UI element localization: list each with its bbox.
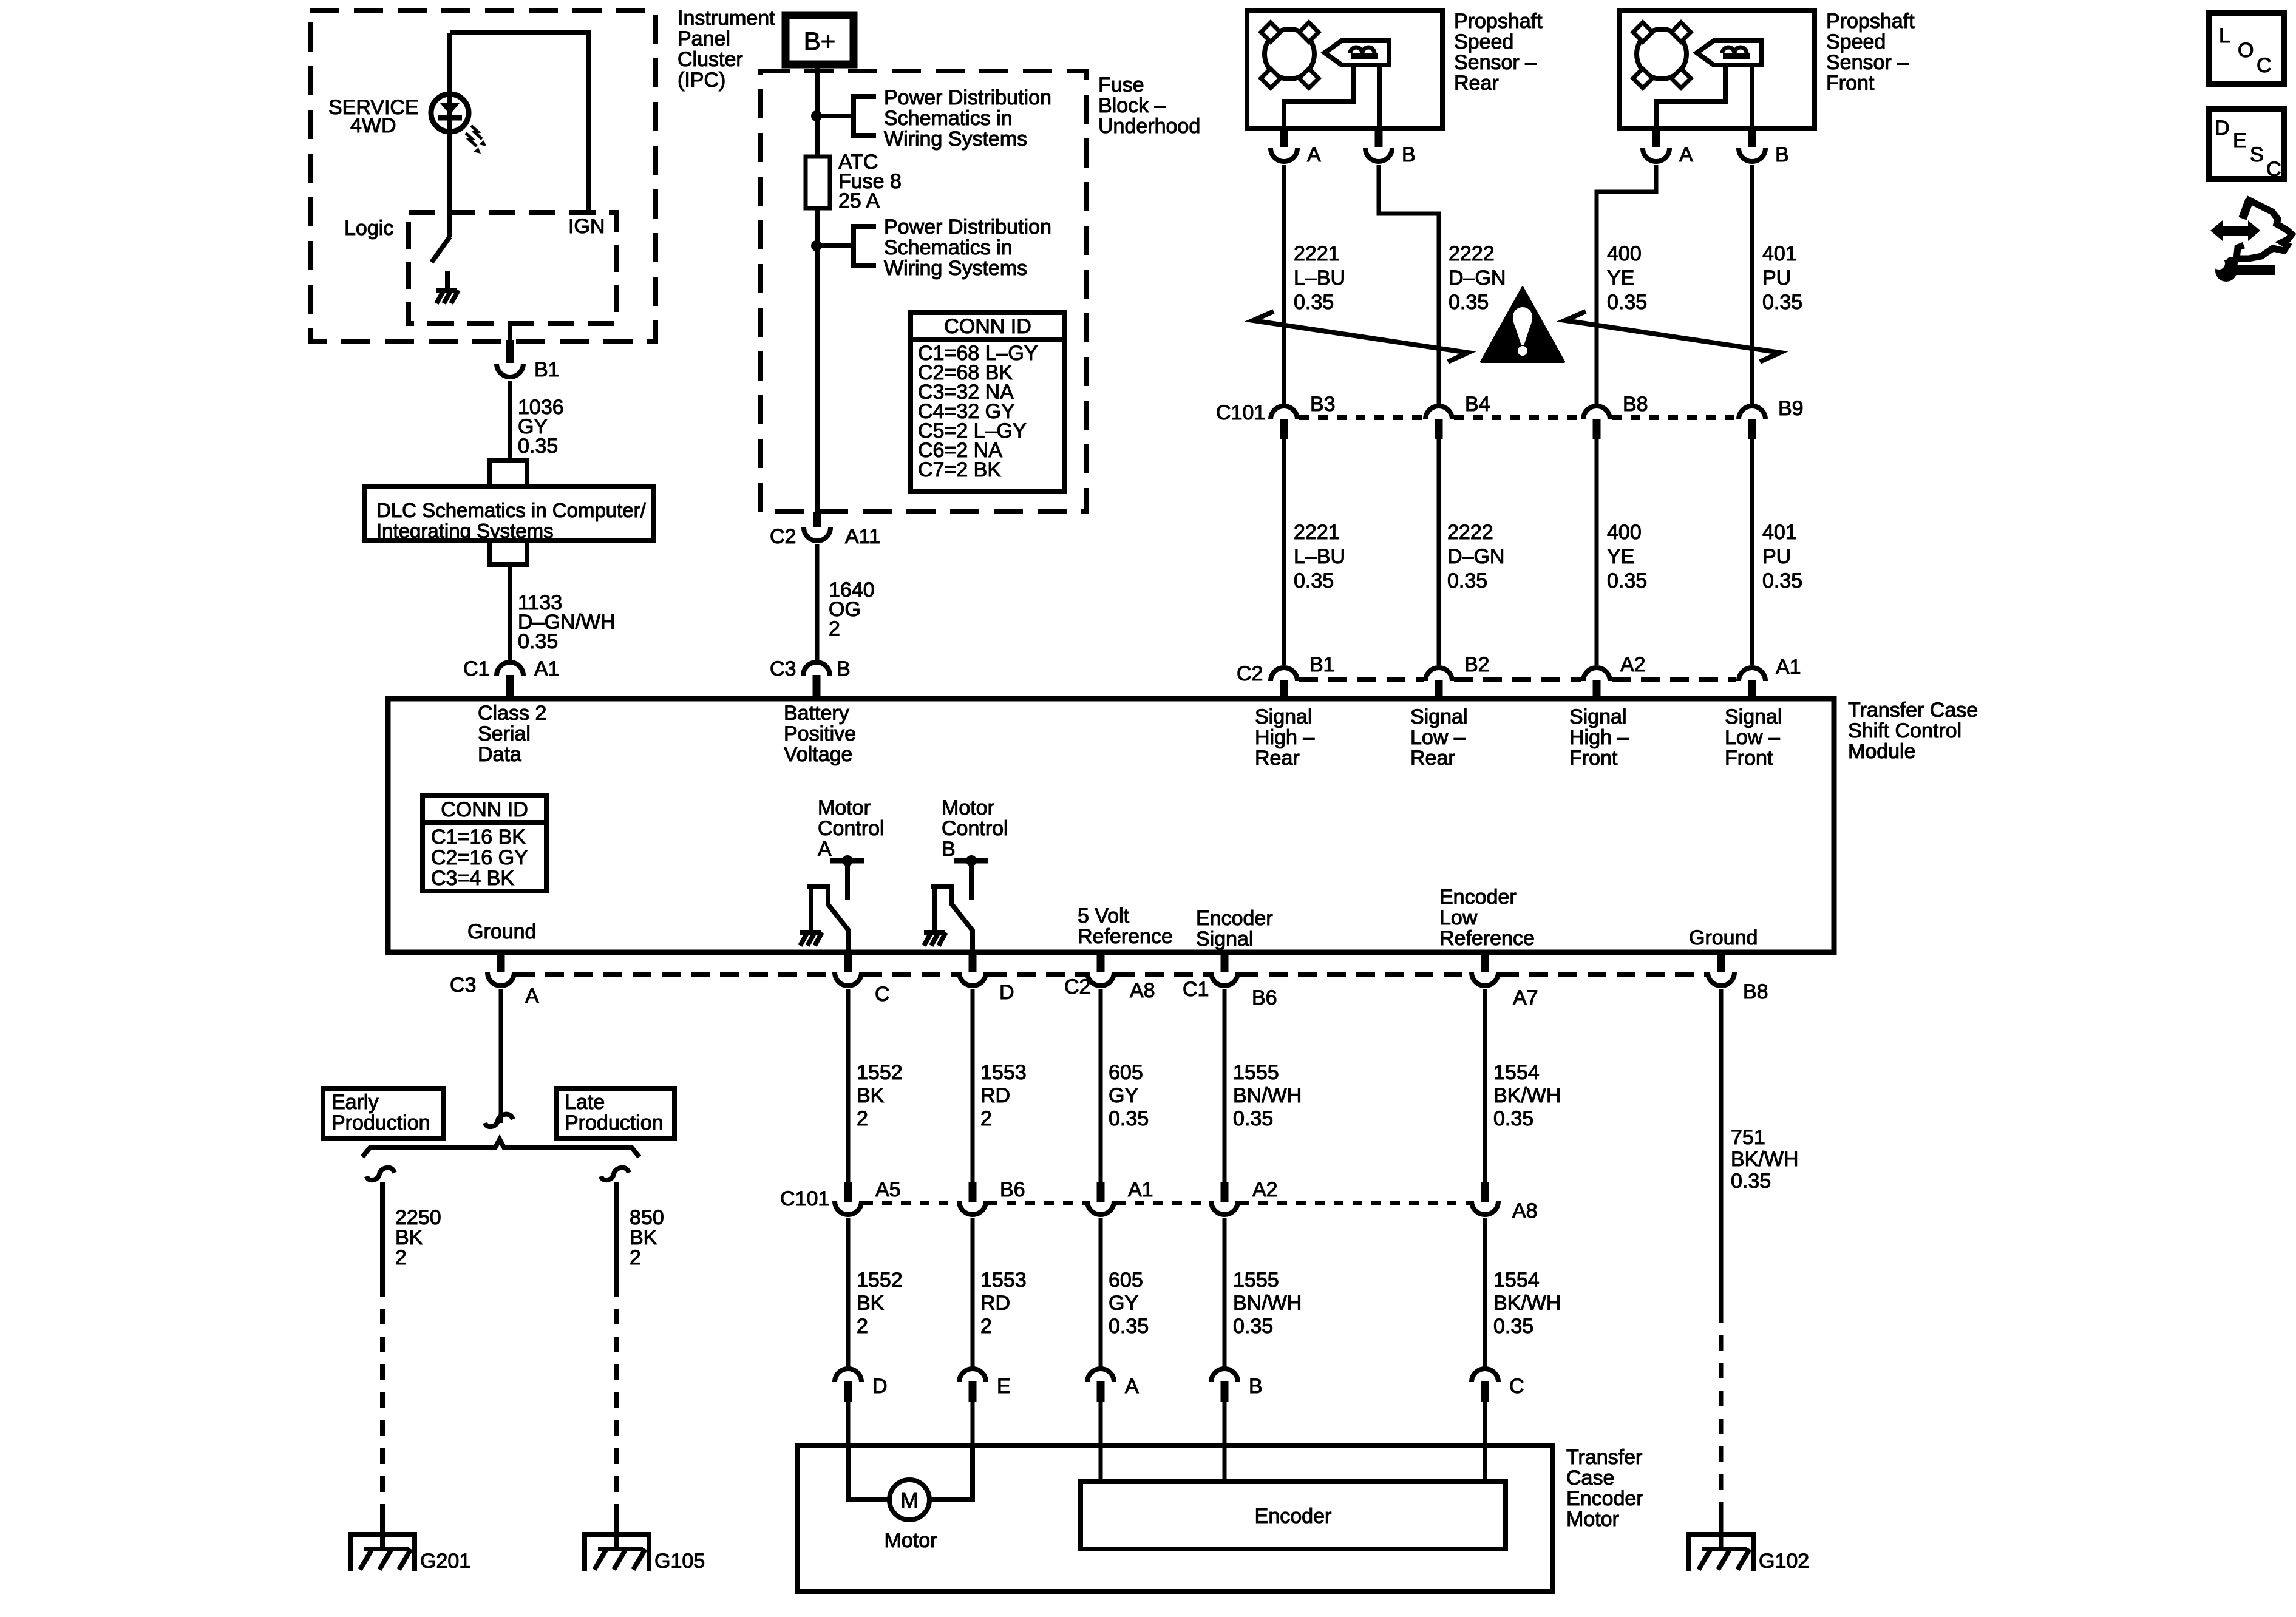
svg-text:C101: C101 <box>1216 401 1265 424</box>
svg-text:2: 2 <box>857 1107 868 1130</box>
svg-text:C101: C101 <box>780 1187 829 1210</box>
svg-text:C2: C2 <box>1237 662 1263 685</box>
svg-text:605: 605 <box>1109 1061 1143 1084</box>
svg-text:G201: G201 <box>420 1550 470 1573</box>
svg-text:Data: Data <box>478 743 521 766</box>
svg-text:Speed: Speed <box>1454 30 1513 53</box>
svg-text:Logic: Logic <box>344 217 393 240</box>
svg-text:B: B <box>1402 143 1416 166</box>
svg-text:BN/WH: BN/WH <box>1233 1084 1302 1107</box>
svg-text:Schematics in: Schematics in <box>884 107 1013 130</box>
svg-text:25 A: 25 A <box>838 189 880 212</box>
svg-text:YE: YE <box>1607 545 1634 568</box>
svg-text:1555: 1555 <box>1233 1061 1279 1084</box>
svg-text:400: 400 <box>1607 521 1642 544</box>
svg-text:0.35: 0.35 <box>518 630 558 653</box>
svg-text:Encoder: Encoder <box>1439 886 1517 909</box>
svg-text:Motor: Motor <box>1566 1508 1619 1531</box>
svg-text:D: D <box>872 1375 888 1398</box>
svg-text:B1: B1 <box>1309 653 1335 676</box>
svg-text:0.35: 0.35 <box>1233 1107 1273 1130</box>
svg-text:A2: A2 <box>1620 653 1646 676</box>
svg-text:C2=16 GY: C2=16 GY <box>431 846 528 869</box>
svg-text:(IPC): (IPC) <box>678 69 725 92</box>
svg-text:400: 400 <box>1607 242 1642 265</box>
svg-text:E: E <box>997 1375 1011 1398</box>
svg-text:Ground: Ground <box>467 920 536 943</box>
svg-text:GY: GY <box>1109 1292 1138 1315</box>
svg-text:BK/WH: BK/WH <box>1493 1084 1561 1107</box>
svg-text:Production: Production <box>331 1111 430 1134</box>
svg-text:A8: A8 <box>1512 1199 1538 1222</box>
svg-text:L: L <box>2219 24 2230 47</box>
svg-text:G105: G105 <box>654 1550 705 1573</box>
svg-text:Late: Late <box>565 1091 605 1114</box>
svg-text:0.35: 0.35 <box>1762 569 1802 592</box>
svg-text:B8: B8 <box>1623 393 1648 416</box>
svg-text:L–BU: L–BU <box>1294 266 1345 290</box>
svg-text:Cluster: Cluster <box>678 48 743 71</box>
svg-text:Serial: Serial <box>478 722 531 745</box>
svg-text:Low –: Low – <box>1725 726 1780 749</box>
svg-text:BK: BK <box>857 1292 885 1315</box>
svg-text:1554: 1554 <box>1493 1061 1540 1084</box>
svg-text:A: A <box>1679 143 1693 166</box>
svg-text:B: B <box>942 838 956 861</box>
svg-text:0.35: 0.35 <box>1493 1315 1533 1338</box>
svg-text:L–BU: L–BU <box>1294 545 1345 568</box>
svg-text:C3: C3 <box>450 974 476 997</box>
svg-text:0.35: 0.35 <box>1762 291 1802 314</box>
svg-text:GY: GY <box>1109 1084 1138 1107</box>
svg-text:Rear: Rear <box>1410 747 1455 770</box>
svg-text:1552: 1552 <box>857 1061 903 1084</box>
svg-text:BK: BK <box>857 1084 885 1107</box>
svg-text:0.35: 0.35 <box>1447 569 1487 592</box>
svg-text:Transfer: Transfer <box>1566 1446 1642 1469</box>
svg-text:A: A <box>1125 1375 1139 1398</box>
svg-text:Front: Front <box>1826 72 1875 95</box>
svg-text:D–GN: D–GN <box>1449 266 1506 290</box>
svg-text:Underhood: Underhood <box>1098 115 1200 138</box>
svg-text:Encoder: Encoder <box>1566 1487 1643 1510</box>
svg-text:0.35: 0.35 <box>1493 1107 1533 1130</box>
svg-text:Signal: Signal <box>1196 927 1254 951</box>
svg-text:Reference: Reference <box>1078 925 1173 948</box>
svg-text:Front: Front <box>1569 747 1618 770</box>
svg-text:A8: A8 <box>1130 979 1155 1002</box>
svg-text:Fuse: Fuse <box>1098 73 1144 97</box>
svg-text:Schematics in: Schematics in <box>884 236 1013 259</box>
svg-text:D–GN: D–GN <box>1447 545 1504 568</box>
svg-text:Positive: Positive <box>784 722 856 745</box>
svg-text:2: 2 <box>980 1107 992 1130</box>
svg-text:Shift Control: Shift Control <box>1848 719 1961 742</box>
svg-text:BN/WH: BN/WH <box>1233 1292 1302 1315</box>
svg-text:A1: A1 <box>1128 1178 1153 1201</box>
svg-text:PU: PU <box>1762 266 1791 290</box>
svg-text:Control: Control <box>942 817 1008 840</box>
svg-text:605: 605 <box>1109 1269 1143 1292</box>
svg-text:BK/WH: BK/WH <box>1493 1292 1561 1315</box>
svg-text:CONN ID: CONN ID <box>441 798 528 821</box>
svg-text:B3: B3 <box>1310 393 1336 416</box>
svg-text:RD: RD <box>980 1292 1010 1315</box>
svg-text:2: 2 <box>630 1246 641 1269</box>
svg-text:IGN: IGN <box>568 215 605 238</box>
svg-text:Signal: Signal <box>1725 705 1782 728</box>
svg-text:401: 401 <box>1762 242 1797 265</box>
svg-text:M: M <box>900 1488 919 1513</box>
svg-text:Power Distribution: Power Distribution <box>884 215 1051 239</box>
svg-text:A: A <box>525 985 539 1008</box>
svg-text:PU: PU <box>1762 545 1791 568</box>
svg-text:0.35: 0.35 <box>1607 291 1647 314</box>
svg-text:Integrating Systems: Integrating Systems <box>376 520 554 542</box>
svg-text:Encoder: Encoder <box>1196 907 1273 930</box>
svg-text:B: B <box>1249 1375 1263 1398</box>
svg-text:E: E <box>2233 129 2247 152</box>
svg-text:401: 401 <box>1762 521 1797 544</box>
svg-text:DLC Schematics in Computer/: DLC Schematics in Computer/ <box>376 499 647 521</box>
svg-text:0.35: 0.35 <box>1731 1170 1771 1193</box>
svg-text:1554: 1554 <box>1493 1269 1540 1292</box>
svg-text:A7: A7 <box>1513 986 1538 1009</box>
svg-text:2: 2 <box>395 1246 407 1269</box>
svg-text:YE: YE <box>1607 266 1634 290</box>
svg-text:2221: 2221 <box>1294 521 1340 544</box>
svg-text:Case: Case <box>1566 1466 1614 1490</box>
svg-text:O: O <box>2238 39 2254 62</box>
svg-text:Rear: Rear <box>1454 72 1499 95</box>
svg-text:2: 2 <box>829 617 840 640</box>
svg-text:0.35: 0.35 <box>1109 1315 1149 1338</box>
svg-text:A: A <box>818 838 832 861</box>
svg-text:Instrument: Instrument <box>678 7 775 30</box>
svg-text:2: 2 <box>857 1315 868 1338</box>
svg-text:C1: C1 <box>463 657 489 680</box>
svg-text:C1: C1 <box>1183 978 1209 1001</box>
svg-text:A: A <box>1307 143 1321 166</box>
svg-text:B8: B8 <box>1743 980 1768 1003</box>
svg-text:Transfer Case: Transfer Case <box>1848 699 1978 722</box>
svg-text:C7=2 BK: C7=2 BK <box>918 458 1001 481</box>
svg-text:Wiring Systems: Wiring Systems <box>884 127 1027 151</box>
svg-text:C2: C2 <box>770 525 796 548</box>
svg-text:B2: B2 <box>1464 653 1490 676</box>
svg-text:1553: 1553 <box>980 1269 1027 1292</box>
svg-text:1552: 1552 <box>857 1269 903 1292</box>
svg-text:Motor: Motor <box>885 1529 937 1552</box>
svg-text:Signal: Signal <box>1569 705 1627 728</box>
svg-text:C: C <box>2257 54 2272 77</box>
svg-text:2221: 2221 <box>1294 242 1340 265</box>
svg-text:Front: Front <box>1725 747 1773 770</box>
svg-text:B1: B1 <box>534 358 560 381</box>
svg-text:0.35: 0.35 <box>1607 569 1647 592</box>
svg-text:BK/WH: BK/WH <box>1731 1148 1798 1171</box>
svg-text:0.35: 0.35 <box>1233 1315 1273 1338</box>
svg-text:Control: Control <box>818 817 885 840</box>
svg-text:Ground: Ground <box>1689 926 1758 949</box>
svg-text:Speed: Speed <box>1826 30 1886 53</box>
svg-text:High –: High – <box>1569 726 1629 749</box>
svg-text:Propshaft: Propshaft <box>1454 10 1543 33</box>
svg-text:B: B <box>837 657 851 680</box>
svg-text:Signal: Signal <box>1410 705 1468 728</box>
svg-text:0.35: 0.35 <box>1449 291 1489 314</box>
svg-text:RD: RD <box>980 1084 1010 1107</box>
svg-text:Encoder: Encoder <box>1255 1505 1332 1528</box>
svg-text:A5: A5 <box>875 1178 901 1201</box>
svg-text:B4: B4 <box>1465 393 1490 416</box>
svg-text:Sensor –: Sensor – <box>1826 51 1909 74</box>
svg-text:Early: Early <box>331 1091 378 1114</box>
svg-text:B+: B+ <box>804 27 836 55</box>
svg-text:Propshaft: Propshaft <box>1826 10 1915 33</box>
svg-text:B: B <box>1775 143 1789 166</box>
svg-text:Low –: Low – <box>1410 726 1466 749</box>
svg-text:D: D <box>999 981 1014 1004</box>
svg-text:Battery: Battery <box>784 702 849 725</box>
svg-text:C1=16 BK: C1=16 BK <box>431 825 526 849</box>
svg-text:C2: C2 <box>1064 975 1090 998</box>
svg-text:2: 2 <box>980 1315 992 1338</box>
svg-text:Motor: Motor <box>942 796 994 819</box>
svg-text:2222: 2222 <box>1447 521 1493 544</box>
svg-text:Sensor –: Sensor – <box>1454 51 1537 74</box>
svg-text:0.35: 0.35 <box>1294 291 1334 314</box>
svg-text:D: D <box>2215 117 2230 140</box>
svg-text:Production: Production <box>565 1111 664 1134</box>
svg-text:A1: A1 <box>534 657 560 680</box>
svg-text:5 Volt: 5 Volt <box>1078 904 1130 927</box>
svg-text:4WD: 4WD <box>350 114 396 137</box>
svg-text:A1: A1 <box>1776 656 1801 679</box>
svg-text:Voltage: Voltage <box>784 743 852 766</box>
svg-text:0.35: 0.35 <box>1294 569 1334 592</box>
svg-text:B6: B6 <box>1000 1178 1025 1201</box>
svg-text:751: 751 <box>1731 1126 1765 1149</box>
svg-text:C3: C3 <box>770 657 796 680</box>
svg-text:CONN ID: CONN ID <box>944 315 1031 338</box>
svg-text:Motor: Motor <box>818 796 871 819</box>
svg-text:Signal: Signal <box>1255 705 1313 728</box>
svg-text:Rear: Rear <box>1255 747 1300 770</box>
svg-text:A2: A2 <box>1252 1178 1278 1201</box>
svg-text:0.35: 0.35 <box>1109 1107 1149 1130</box>
svg-text:High –: High – <box>1255 726 1314 749</box>
svg-text:C3=4 BK: C3=4 BK <box>431 867 514 890</box>
svg-text:C: C <box>1509 1375 1524 1398</box>
svg-text:Class 2: Class 2 <box>478 702 546 725</box>
svg-text:Block –: Block – <box>1098 94 1166 117</box>
svg-text:B9: B9 <box>1778 397 1804 420</box>
svg-text:2222: 2222 <box>1449 242 1495 265</box>
svg-text:C: C <box>2266 158 2281 181</box>
svg-text:Low: Low <box>1439 906 1478 929</box>
svg-text:B6: B6 <box>1252 986 1277 1009</box>
svg-text:Module: Module <box>1848 740 1916 763</box>
svg-text:Panel: Panel <box>678 27 730 50</box>
svg-text:Reference: Reference <box>1439 927 1535 950</box>
svg-text:A11: A11 <box>845 525 880 548</box>
svg-text:C: C <box>875 983 890 1006</box>
svg-text:Wiring Systems: Wiring Systems <box>884 257 1027 280</box>
svg-text:G102: G102 <box>1759 1550 1809 1573</box>
svg-text:S: S <box>2250 143 2264 166</box>
svg-text:Power Distribution: Power Distribution <box>884 86 1051 109</box>
svg-text:1555: 1555 <box>1233 1269 1279 1292</box>
svg-text:1553: 1553 <box>980 1061 1027 1084</box>
svg-text:0.35: 0.35 <box>518 435 558 458</box>
